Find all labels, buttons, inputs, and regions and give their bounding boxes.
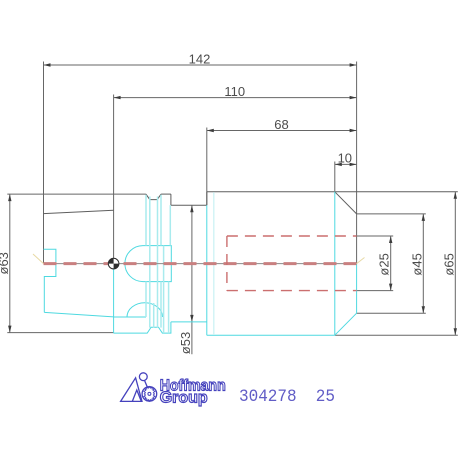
dia53 dimension line (191, 205, 193, 354)
neck top edge (171, 204, 207, 206)
hidden bore top (red dashed) (227, 235, 357, 237)
extension line for 142 left / shank left face (43, 62, 45, 264)
hidden neck-body junction line (pale) (213, 192, 215, 335)
datum point symbol (108, 258, 119, 269)
extension line for 68 / body left face top (206, 128, 208, 206)
flange face lower (113, 269, 115, 333)
yellow end tick left (33, 254, 44, 264)
dimension 10 line (335, 163, 357, 165)
svg-text:ø53: ø53 (178, 332, 193, 354)
yellow end tick right (357, 258, 365, 264)
neck bottom edge (171, 321, 207, 323)
taper bottom line (44, 312, 113, 317)
svg-text:110: 110 (224, 84, 245, 99)
dia65 arrows (454, 192, 457, 335)
svg-text:ø45: ø45 (409, 253, 424, 275)
body top edge + dia65 top extension (207, 191, 458, 193)
body bottom edge (207, 334, 335, 336)
dia63 bottom extension line (7, 332, 113, 334)
flange top edge right of notch (161, 193, 171, 195)
dia65 bottom extension line (335, 334, 458, 336)
dimension 68 line (207, 130, 357, 132)
logo small inner triangle (132, 390, 141, 401)
dia63 dimension line (9, 194, 11, 333)
svg-text:ø63: ø63 (0, 252, 11, 274)
svg-text:ø65: ø65 (441, 253, 456, 275)
drawbar capsule (125, 246, 171, 282)
dia53 arrows (190, 205, 193, 322)
dia25 arrows (389, 236, 392, 291)
logo neck line (145, 381, 148, 387)
dia65 dimension line (454, 192, 456, 335)
chamfer start projection line (334, 192, 336, 335)
svg-text:142: 142 (189, 52, 211, 67)
dia63 top extension + flange top edge (7, 193, 146, 195)
dia63 arrows (8, 194, 11, 333)
logo gear outer circle (142, 387, 157, 402)
chamfer bottom (335, 313, 357, 335)
cyan section lines bottom half (44, 192, 357, 335)
clamp dome arc (127, 303, 163, 317)
gripper groove verticals (pale) (146, 195, 170, 333)
body left face upper (206, 192, 208, 205)
dia25 extension lines (357, 235, 394, 237)
dimension 110 line (114, 97, 357, 99)
flange V-notch (146, 194, 161, 200)
dia45 extension lines (357, 213, 426, 215)
svg-text:68: 68 (274, 117, 288, 132)
dimension 68 arrows (207, 129, 357, 132)
chamfer top (335, 192, 357, 214)
centerline gray core (44, 263, 357, 265)
dimension 142 arrows (44, 63, 357, 66)
right face lower (356, 264, 358, 314)
part outline dark top half (44, 192, 458, 214)
body left face lower (206, 205, 208, 335)
centerline red dashes (44, 262, 357, 265)
extension line for 10 left (334, 162, 336, 192)
extension line for 110 / flange face edge (113, 95, 115, 264)
logo gear hub (148, 392, 151, 395)
dimension 142 line (44, 64, 357, 66)
interior notch at left face (44, 249, 56, 312)
dimension 110 arrows (114, 96, 357, 99)
dia25 dimension line (390, 236, 392, 291)
dome chord line (114, 316, 146, 318)
svg-text:Group: Group (160, 389, 208, 406)
svg-text:304278 25: 304278 25 (239, 387, 335, 407)
dia45 arrows (422, 214, 425, 313)
logo gear star (144, 387, 155, 402)
svg-text:10: 10 (338, 151, 352, 166)
logo head circle (139, 373, 147, 381)
dimension 10 arrows (335, 163, 357, 166)
step down to neck (170, 194, 172, 205)
flange bottom edge (114, 322, 171, 333)
svg-text:ø25: ø25 (377, 253, 392, 275)
Hoffmann Group logo: big triangle (121, 373, 157, 402)
hidden bore left end (red dashed) (226, 236, 228, 291)
taper top line (44, 210, 114, 213)
shared right extension line / body right face (356, 62, 358, 264)
hidden bore bottom (red dashed) (227, 290, 357, 292)
dia45 dimension line (422, 214, 424, 313)
